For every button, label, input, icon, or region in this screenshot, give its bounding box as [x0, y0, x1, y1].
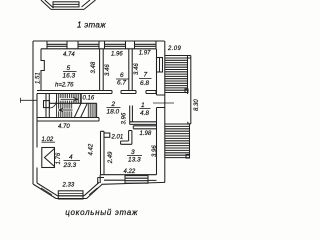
- right wall: [157, 41, 165, 182]
- svg-text:4: 4: [69, 154, 73, 161]
- bay diagonal window lines: [41, 188, 52, 195]
- stair landing turn: [49, 94, 56, 109]
- bay right connection pier: [98, 175, 104, 184]
- top wall window 2: [78, 41, 99, 49]
- corridor top wall: [133, 126, 156, 129]
- svg-text:4.8: 4.8: [140, 110, 149, 117]
- room3 bottom wall: [102, 175, 166, 185]
- stair arrow low: [59, 108, 73, 111]
- stairwell left wall: [46, 94, 49, 118]
- stairwell left niche box: [44, 101, 50, 108]
- svg-text:4.74: 4.74: [63, 52, 75, 58]
- svg-text:4.22: 4.22: [124, 169, 136, 175]
- svg-text:цокольный этаж: цокольный этаж: [65, 208, 138, 217]
- fraction line room 7: [139, 78, 152, 80]
- svg-text:h=2.76: h=2.76: [55, 83, 74, 89]
- svg-text:16.3: 16.3: [63, 73, 76, 80]
- left wall lower inner: [36, 94, 38, 184]
- svg-text:8.30: 8.30: [194, 99, 200, 111]
- external stair top edge: [165, 56, 191, 59]
- bay octagon left diagonal: [33, 183, 58, 199]
- stair stringer: [80, 94, 82, 104]
- svg-text:1.76: 1.76: [56, 152, 62, 164]
- svg-text:3.48: 3.48: [91, 61, 97, 73]
- right wall chimney: [157, 58, 163, 73]
- bay light well room4: [42, 148, 55, 168]
- L wall room3: [121, 131, 132, 145]
- wall room4-3 pilaster: [104, 133, 110, 137]
- stair flight upper hatch: [57, 94, 81, 104]
- external stair landing rail: [190, 94, 192, 124]
- svg-text:4.42: 4.42: [89, 143, 95, 155]
- svg-text:2: 2: [111, 101, 116, 108]
- pipe left: [21, 98, 38, 103]
- fraction line room 5: [63, 71, 77, 73]
- svg-text:6: 6: [120, 72, 124, 79]
- external stair lower flight: [165, 124, 190, 159]
- room1 bottom wall: [130, 122, 157, 125]
- svg-text:1.51: 1.51: [36, 72, 42, 84]
- svg-text:23.3: 23.3: [63, 162, 77, 169]
- stair arrow up underlay: [59, 98, 77, 101]
- top wall inner: [41, 48, 156, 50]
- svg-text:2.33: 2.33: [62, 182, 75, 188]
- stair flight lower hatch: [57, 103, 96, 117]
- top wall outer: [33, 40, 165, 42]
- left wall upper band: [32, 41, 34, 184]
- svg-text:1.98: 1.98: [140, 131, 152, 137]
- external stair landing step tick: [188, 122, 191, 124]
- top wall window 4: [135, 41, 157, 49]
- svg-text:1 этаж: 1 этаж: [77, 21, 106, 30]
- underline dim 1.02: [42, 141, 56, 143]
- svg-text:4.70: 4.70: [58, 124, 70, 130]
- wall room4-3: [101, 131, 105, 174]
- svg-text:18.0: 18.0: [107, 109, 120, 116]
- stair newel upper: [185, 89, 188, 93]
- svg-text:3.46: 3.46: [134, 63, 140, 75]
- stairwell bottom wall: [37, 118, 99, 122]
- svg-text:1: 1: [141, 102, 145, 109]
- stair newel lower: [186, 155, 190, 159]
- stair arrow up: [61, 98, 79, 101]
- svg-text:1.97: 1.97: [139, 51, 151, 57]
- svg-text:3.46: 3.46: [105, 64, 111, 76]
- bay bottom: [56, 196, 87, 199]
- svg-text:2.09: 2.09: [167, 46, 182, 52]
- fraction line room 1: [140, 108, 151, 110]
- svg-text:2.01: 2.01: [111, 135, 124, 141]
- stair mid line: [49, 102, 96, 104]
- room3 bottom door box: [125, 176, 148, 184]
- top wall window 3: [105, 41, 126, 49]
- wall rooms5-6: [100, 49, 104, 91]
- svg-text:6.7: 6.7: [117, 80, 126, 87]
- bay bottom window: [58, 191, 83, 199]
- right wall door opening: [157, 95, 165, 108]
- top wall window 1: [47, 41, 67, 49]
- svg-text:13.3: 13.3: [128, 156, 141, 163]
- upper floor bay fragment: [41, 0, 96, 9]
- fraction line room 2: [107, 107, 121, 109]
- svg-text:3.96: 3.96: [152, 145, 158, 157]
- svg-text:3.96: 3.96: [122, 112, 128, 124]
- room1 left wall: [130, 106, 133, 122]
- bay right diagonal: [84, 182, 102, 198]
- left wall inner with pilaster: [41, 49, 44, 91]
- stair arrow low underlay: [58, 109, 73, 112]
- fraction line room 3: [127, 154, 142, 156]
- svg-text:0.16: 0.16: [83, 96, 95, 102]
- hall top wall with doors: [37, 91, 112, 94]
- svg-text:5: 5: [67, 65, 71, 72]
- wall rooms6-7: [129, 49, 132, 91]
- svg-text:7: 7: [144, 72, 148, 79]
- fraction line room 6: [116, 78, 129, 80]
- svg-text:6.8: 6.8: [140, 80, 149, 87]
- fraction line room 4: [64, 160, 81, 162]
- external stair upper flight: [165, 56, 191, 95]
- svg-text:2.49: 2.49: [108, 151, 114, 164]
- door threshold line: [153, 102, 174, 104]
- stair break diagonal: [74, 103, 87, 117]
- svg-text:1.96: 1.96: [111, 52, 123, 58]
